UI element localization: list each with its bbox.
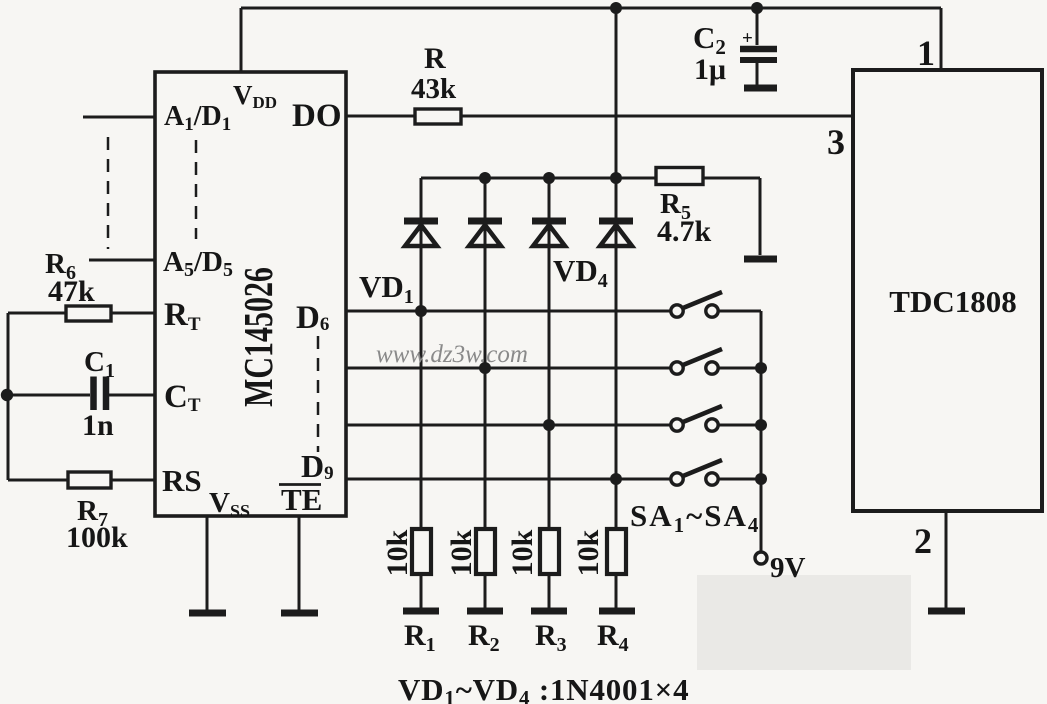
dashed continuation outside (A1..A5) xyxy=(107,137,110,249)
wire row D8 xyxy=(346,424,761,427)
pin label VDD xyxy=(233,80,277,112)
svg-text:1: 1 xyxy=(917,33,935,73)
pin label TE (active low) xyxy=(279,482,322,517)
pin label D9 xyxy=(301,448,334,484)
diode VD4 xyxy=(599,221,633,246)
svg-text:1μ: 1μ xyxy=(694,53,726,86)
node junction row D6 / VD1 xyxy=(415,305,427,317)
wire TDC1808 pin 2 to ground xyxy=(945,511,948,608)
wire VD1 column xyxy=(420,178,423,611)
wire drop to TDC1808 pin 1 xyxy=(940,8,943,70)
dashed continuation inside (D1..D5) xyxy=(195,140,198,239)
wire row D9 xyxy=(346,478,761,481)
caption VD1~VD4 : 1N4001 x4 xyxy=(398,672,689,704)
svg-text:A5/D5: A5/D5 xyxy=(163,246,233,281)
diode VD3 xyxy=(532,221,566,246)
wire VD4 column (top rail to R4) xyxy=(615,8,618,611)
ground R5 xyxy=(744,256,777,263)
resistor R2 10k xyxy=(445,529,495,576)
dashed continuation (D6..D9) xyxy=(317,336,320,452)
resistor R 43k xyxy=(411,42,461,124)
switch SA4 xyxy=(671,460,722,485)
node junction bus / SA2 xyxy=(755,362,767,374)
pin label A1/D1 xyxy=(164,101,231,135)
svg-text:10k: 10k xyxy=(445,529,478,576)
label R3 xyxy=(535,619,567,656)
wire CT line xyxy=(8,394,155,397)
wire left vertical (RT to RS) xyxy=(7,313,10,480)
pin label VSS xyxy=(209,487,250,521)
svg-text:VD1~VD4 :1N4001×4: VD1~VD4 :1N4001×4 xyxy=(398,672,689,704)
wire 9V bus xyxy=(760,311,763,552)
svg-text:9V: 9V xyxy=(770,552,806,584)
switch SA2 xyxy=(671,349,722,374)
node junction top rail / C2 xyxy=(751,2,763,14)
resistor R4 10k xyxy=(572,529,626,576)
ground R3 xyxy=(531,608,567,615)
IC U2 TDC1808 body xyxy=(853,70,1042,511)
node junction top rail / VD4 column xyxy=(610,2,622,14)
wire A1/D1 input stub xyxy=(83,116,155,119)
node junction rail/VD2 xyxy=(479,172,491,184)
ground VSS xyxy=(189,610,226,617)
node junction row D8 / VD3 xyxy=(543,419,555,431)
pin label RT xyxy=(164,297,201,335)
wire row D7 xyxy=(346,367,761,370)
wire VD3 column xyxy=(548,178,551,611)
resistor R5 4.7k xyxy=(656,168,712,249)
svg-text:47k: 47k xyxy=(48,275,95,308)
label R4 xyxy=(597,619,629,656)
resistor R1 10k xyxy=(381,529,431,576)
svg-text:4.7k: 4.7k xyxy=(657,215,712,248)
node junction rail/VD3 xyxy=(543,172,555,184)
wire VSS to ground xyxy=(206,516,209,612)
diode VD1 xyxy=(404,221,438,246)
svg-text:10k: 10k xyxy=(572,529,605,576)
wire RS line xyxy=(8,479,155,482)
wire RT line xyxy=(8,312,155,315)
svg-text:DO: DO xyxy=(292,98,342,134)
wire diode common rail xyxy=(421,177,656,180)
pin label D6 xyxy=(296,300,329,336)
pin label CT xyxy=(164,379,201,416)
IC U1 MC145026 body xyxy=(155,72,346,516)
svg-text:2: 2 xyxy=(914,521,932,561)
svg-text:+: + xyxy=(742,28,753,49)
label VD1 xyxy=(359,269,414,308)
svg-text:R: R xyxy=(424,42,446,75)
svg-text:TE: TE xyxy=(281,482,322,517)
node junction bus / SA3 xyxy=(755,419,767,431)
capacitor C2 1u electrolytic xyxy=(693,8,777,86)
capacitor C1 1n xyxy=(82,346,115,442)
resistor R3 10k xyxy=(506,529,559,576)
ground TE xyxy=(281,610,318,617)
wire A5/D5 stub xyxy=(89,259,155,262)
svg-text:10k: 10k xyxy=(381,529,414,576)
wire VDD top rail xyxy=(241,7,941,10)
svg-text:TDC1808: TDC1808 xyxy=(889,284,1016,319)
svg-text:43k: 43k xyxy=(411,73,457,105)
wire R5 to ground xyxy=(703,178,760,255)
resistor R6 47k xyxy=(45,248,111,321)
terminal 9V xyxy=(755,552,806,584)
node junction left vertical / CT xyxy=(1,389,13,401)
ground C2 xyxy=(744,85,777,92)
svg-text:A1/D1: A1/D1 xyxy=(164,101,231,135)
label VD4 xyxy=(553,253,608,292)
svg-text:100k: 100k xyxy=(66,521,128,554)
wire VDD drop to MC145026 xyxy=(240,8,243,72)
pin label A5/D5 xyxy=(163,246,233,281)
switch SA1 xyxy=(671,292,722,317)
node junction bus / SA4 xyxy=(755,473,767,485)
svg-text:RS: RS xyxy=(162,463,202,498)
ground TDC1808 pin 2 xyxy=(928,608,965,615)
svg-text:1n: 1n xyxy=(82,409,114,442)
ground R2 xyxy=(467,608,503,615)
svg-text:www.dz3w.com: www.dz3w.com xyxy=(376,341,528,368)
wire row D6 xyxy=(346,310,761,313)
wire TE to ground xyxy=(298,516,301,612)
ground R4 xyxy=(599,608,635,615)
resistor R7 100k xyxy=(66,472,128,554)
wire DO output to R xyxy=(346,115,415,118)
svg-text:MC145026: MC145026 xyxy=(235,267,281,407)
svg-text:3: 3 xyxy=(827,122,845,162)
node junction row D9 / VD4 xyxy=(610,473,622,485)
label SA1~SA4 xyxy=(630,498,760,537)
wire R to TDC1808 pin 3 xyxy=(461,115,853,118)
diode VD2 xyxy=(468,221,502,246)
label R1 xyxy=(404,619,436,656)
node junction rail/VD4 xyxy=(610,172,622,184)
label R2 xyxy=(468,619,500,656)
ground R1 xyxy=(403,608,439,615)
node junction row D7 / VD2 xyxy=(479,362,491,374)
svg-text:10k: 10k xyxy=(506,529,539,576)
svg-text:SA1~SA4: SA1~SA4 xyxy=(630,498,760,537)
wire VD2 column xyxy=(484,178,487,611)
switch SA3 xyxy=(671,406,722,431)
